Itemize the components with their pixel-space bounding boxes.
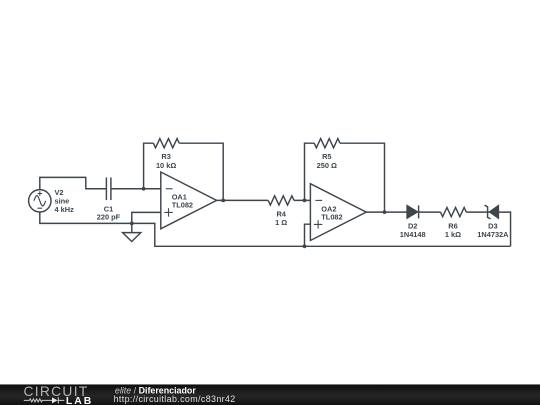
wire V2 bottom rail to right side [40,212,511,246]
CircuitLab logo motif resistor [24,399,52,402]
wire R4 to OA2 inverting input [294,199,310,201]
wire bottom rail to OA2 non-inverting input [305,224,311,246]
svg-text:220 pF: 220 pF [97,213,121,222]
wire C1 to OA1 inverting input [111,188,161,190]
wire D2 to R6 [419,211,441,213]
wire node B up to R5 left [305,143,315,200]
svg-text:250 Ω: 250 Ω [317,161,337,170]
wire R3 right down to OA1 output [179,143,223,200]
wire V2 top to C1 [40,177,106,189]
svg-text:TL082: TL082 [321,213,342,222]
resistor R6 [441,208,467,217]
svg-text:http://circuitlab.com/c83nr42: http://circuitlab.com/c83nr42 [114,394,236,404]
CircuitLab logo motif diode [52,397,64,403]
zener diode D3 [485,205,499,219]
svg-text:V2: V2 [55,188,64,197]
junction node A (C1/R3/OA1-) [142,187,146,191]
op-amp OA2 [310,184,366,241]
svg-text:R5: R5 [322,152,331,161]
svg-text:1N4732A: 1N4732A [477,230,509,239]
junction node B (R4/R5/OA2-) [303,199,307,203]
wire node A up to R3 left [144,143,154,189]
junction ground node [130,221,134,225]
resistor R5 [314,139,340,148]
svg-text:4 kHz: 4 kHz [55,205,75,214]
junction OA1 output [221,199,225,203]
wire OA2 output to D2 [366,211,407,213]
capacitor C1 [106,177,111,200]
diode D2 [407,205,419,218]
svg-text:1 kΩ: 1 kΩ [445,230,461,239]
svg-text:TL082: TL082 [172,201,193,210]
wire ground node to OA1 non-inverting input [132,212,161,223]
svg-text:LAB: LAB [66,396,93,405]
svg-text:10 kΩ: 10 kΩ [156,161,176,170]
ground [123,223,141,241]
footer bar [0,384,540,405]
wire OA1 output to R4 [217,199,269,201]
svg-text:1N4148: 1N4148 [400,230,426,239]
svg-text:1 Ω: 1 Ω [275,218,287,227]
op-amp OA1 [161,172,217,229]
wire R6 to D3 [466,211,489,213]
wire R5 right down to OA2 output [340,143,385,212]
wire D3 to bottom rail corner [498,212,510,246]
svg-text:R3: R3 [161,152,170,161]
resistor R4 [268,196,294,205]
svg-text:sine: sine [55,197,70,206]
junction OA2 non-inverting on rail [303,244,307,248]
junction OA2 output [383,210,387,214]
resistor R3 [153,139,179,148]
voltage source V2 [29,190,51,212]
